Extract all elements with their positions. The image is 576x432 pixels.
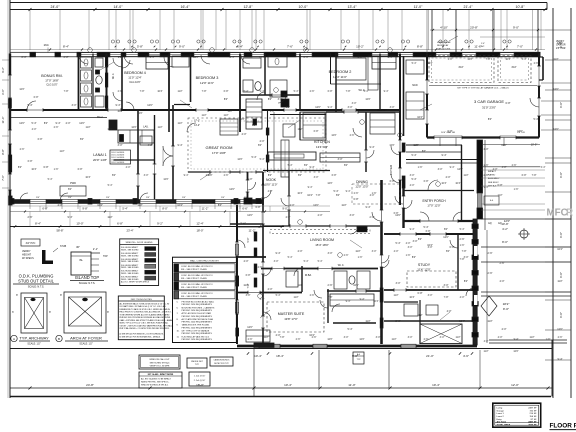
svg-text:11'2": 11'2": [177, 122, 182, 125]
svg-text:4'-0": 4'-0": [484, 148, 489, 151]
svg-text:9'-2": 9'-2": [1, 67, 5, 73]
svg-text:2'-6": 2'-6": [248, 338, 253, 341]
svg-text:2'-1": 2'-1": [93, 247, 98, 251]
svg-text:FLOOR P: FLOOR P: [550, 423, 576, 430]
svg-text:2'-6": 2'-6": [344, 254, 349, 257]
svg-text:12'0": 12'0": [457, 168, 463, 171]
svg-text:742 SF: 742 SF: [529, 410, 537, 412]
svg-text:7'-8": 7'-8": [532, 174, 537, 177]
svg-text:5'-4": 5'-4": [522, 58, 527, 61]
svg-text:3'-0": 3'-0": [438, 168, 443, 171]
svg-text:2'-6": 2'-6": [484, 164, 489, 167]
svg-text:9'-4": 9'-4": [360, 298, 365, 301]
svg-text:17'0" 12'0": 17'0" 12'0": [427, 204, 440, 208]
svg-text:SCALE: 1/2": SCALE: 1/2": [27, 343, 40, 346]
svg-text:WINDOW + DOOR LEGEND: WINDOW + DOOR LEGEND: [126, 242, 153, 244]
svg-text:3'-0": 3'-0": [328, 252, 333, 255]
svg-text:10'4": 10'4": [307, 194, 313, 197]
svg-text:FIN. - SEE STRUCT. PLANS: FIN. - SEE STRUCT. PLANS: [181, 268, 207, 271]
svg-text:6'-8": 6'-8": [390, 180, 395, 183]
svg-text:ALL EXT GLAZING TO BE IMPACT: ALL EXT GLAZING TO BE IMPACT: [141, 378, 172, 381]
svg-text:6'-8": 6'-8": [450, 246, 455, 249]
svg-text:SCALE: 1/2": SCALE: 1/2": [79, 343, 92, 346]
svg-text:VERIFY SLAB: VERIFY SLAB: [437, 41, 451, 44]
svg-text:CONC. BLOCK WALL W/ STUCCO: CONC. BLOCK WALL W/ STUCCO: [181, 265, 213, 268]
svg-text:11'-2": 11'-2": [202, 207, 209, 211]
svg-text:6'-8": 6'-8": [498, 184, 503, 187]
svg-text:2'-6": 2'-6": [20, 148, 25, 151]
svg-text:17'0" 19'8": 17'0" 19'8": [212, 151, 226, 155]
svg-text:4'-0": 4'-0": [58, 204, 63, 207]
svg-text:2487 SF: 2487 SF: [528, 407, 537, 409]
svg-text:12'0": 12'0": [239, 118, 244, 121]
svg-text:12'0": 12'0": [137, 112, 142, 115]
svg-text:9'-4": 9'-4": [178, 144, 183, 147]
svg-text:4'-0": 4'-0": [290, 204, 295, 207]
svg-text:3'-0": 3'-0": [410, 174, 415, 177]
svg-text:TOP: TOP: [103, 256, 108, 258]
svg-text:10'-8": 10'-8": [516, 5, 526, 9]
svg-text:SCALE: N.T.S.: SCALE: N.T.S.: [28, 286, 45, 289]
svg-text:Lanai 2: Lanai 2: [497, 416, 505, 418]
svg-text:4'-0": 4'-0": [370, 194, 375, 197]
svg-text:5'-8": 5'-8": [137, 45, 143, 49]
svg-text:1'-4": 1'-4": [481, 43, 485, 45]
svg-text:12'0": 12'0": [193, 56, 199, 59]
svg-text:MOUNTED FIXTURES + CABINETS: MOUNTED FIXTURES + CABINETS: [182, 306, 216, 309]
svg-text:11'2": 11'2": [557, 280, 562, 283]
svg-text:4'-0": 4'-0": [260, 140, 265, 143]
svg-text:9'-0": 9'-0": [559, 102, 563, 108]
svg-text:SIZES. TYP CLG HT 10'-0" U.N.O: SIZES. TYP CLG HT 10'-0" U.N.O. SEE ELEC…: [120, 322, 169, 325]
svg-text:9'-8": 9'-8": [82, 207, 87, 211]
svg-text:11'2": 11'2": [455, 336, 460, 339]
svg-text:TYP. ARCHWAY: TYP. ARCHWAY: [19, 336, 49, 341]
svg-text:W/ SPECS: W/ SPECS: [22, 257, 34, 260]
svg-text:9'4": 9'4": [36, 197, 40, 199]
svg-text:SCALE: N.T.S.: SCALE: N.T.S.: [79, 282, 96, 285]
svg-text:FIN. - SEE STRUCT. PLANS: FIN. - SEE STRUCT. PLANS: [181, 277, 207, 280]
svg-text:3'-0": 3'-0": [390, 106, 395, 109]
svg-text:6'-8": 6'-8": [224, 90, 229, 93]
svg-text:5'-4": 5'-4": [304, 260, 309, 263]
svg-text:2'-6": 2'-6": [54, 126, 59, 129]
svg-text:11'2": 11'2": [365, 320, 370, 323]
svg-text:2'-6": 2'-6": [244, 202, 249, 205]
svg-text:12'0": 12'0": [19, 88, 24, 91]
svg-text:3 CAR GARAGE: 3 CAR GARAGE: [474, 99, 504, 104]
svg-text:9'-4": 9'-4": [310, 166, 315, 169]
svg-text:10'4": 10'4": [409, 296, 414, 299]
svg-text:10'4": 10'4": [31, 168, 36, 171]
svg-text:RATED PER FBC. SEE SPECS +: RATED PER FBC. SEE SPECS +: [141, 381, 170, 384]
svg-text:4'-0": 4'-0": [244, 260, 249, 263]
svg-text:8'0": 8'0": [286, 106, 290, 109]
svg-text:2'-6": 2'-6": [296, 338, 301, 341]
svg-text:4'-0": 4'-0": [268, 190, 273, 193]
svg-text:164: 164: [43, 43, 48, 47]
svg-text:19'8" 17'0": 19'8" 17'0": [284, 317, 298, 321]
svg-text:3'-0": 3'-0": [428, 246, 433, 249]
svg-text:CONC. BLOCK WALL W/ STUCCO: CONC. BLOCK WALL W/ STUCCO: [181, 274, 213, 277]
svg-text:5'-4": 5'-4": [541, 166, 546, 169]
svg-text:9'-4": 9'-4": [308, 186, 313, 189]
svg-text:156 SF: 156 SF: [529, 416, 537, 418]
svg-text:5'-4": 5'-4": [460, 228, 465, 231]
svg-text:3'-0": 3'-0": [444, 284, 449, 287]
svg-text:6'-8": 6'-8": [44, 166, 49, 169]
svg-text:CONC. BLOCK WALL W/ STUCCO: CONC. BLOCK WALL W/ STUCCO: [181, 292, 213, 295]
svg-text:12'0": 12'0": [553, 88, 559, 91]
svg-text:6'-6": 6'-6": [242, 207, 247, 211]
svg-text:4'-0": 4'-0": [446, 176, 451, 179]
svg-text:PER FBC 2020 REQUIREMENTS: PER FBC 2020 REQUIREMENTS: [182, 310, 213, 312]
svg-text:2'-6": 2'-6": [512, 164, 517, 167]
svg-text:1'-6": 1'-6": [270, 110, 275, 113]
svg-text:9'4": 9'4": [68, 197, 72, 199]
svg-text:12'0" 13'0": 12'0" 13'0": [355, 185, 368, 189]
svg-text:2'8" HDR: 2'8" HDR: [556, 48, 566, 50]
svg-text:8'0": 8'0": [68, 188, 72, 191]
svg-text:1'-6": 1'-6": [546, 338, 551, 341]
svg-text:6'-8": 6'-8": [522, 174, 527, 177]
svg-text:11'2": 11'2": [59, 150, 64, 153]
svg-text:2'-6": 2'-6": [396, 320, 401, 323]
svg-text:M.BA: M.BA: [305, 273, 312, 277]
svg-text:24'-8": 24'-8": [86, 383, 94, 387]
svg-text:A/C PLATFORM PER MECH PLAN: A/C PLATFORM PER MECH PLAN: [182, 318, 214, 321]
svg-text:3'-0": 3'-0": [396, 282, 401, 285]
svg-text:R: R: [566, 208, 573, 219]
svg-text:2'-6": 2'-6": [354, 192, 359, 195]
svg-text:10'4": 10'4": [417, 116, 423, 119]
svg-text:6'-8": 6'-8": [64, 56, 69, 59]
svg-text:6'-8": 6'-8": [418, 292, 423, 295]
svg-text:11'2": 11'2": [393, 294, 398, 297]
svg-text:11'2": 11'2": [227, 110, 232, 113]
svg-text:W.I.C.: W.I.C.: [338, 264, 345, 267]
svg-text:ALL EXTERIOR WALLS TO BE 2x6 W: ALL EXTERIOR WALLS TO BE 2x6 WD STUDS @ …: [120, 302, 170, 305]
svg-text:14'-2": 14'-2": [194, 125, 200, 127]
svg-text:12'0": 12'0": [443, 236, 449, 239]
svg-text:8'0": 8'0": [336, 194, 340, 197]
svg-text:8'0": 8'0": [298, 174, 302, 177]
svg-text:6'-0": 6'-0": [42, 207, 47, 211]
svg-text:11'2": 11'2": [483, 350, 488, 353]
svg-text:A: A: [13, 337, 15, 341]
svg-text:10'-0": 10'-0": [76, 222, 83, 226]
svg-text:11'2": 11'2": [201, 114, 206, 117]
svg-text:5'-4": 5'-4": [348, 328, 353, 331]
svg-text:3'-0": 3'-0": [440, 336, 445, 339]
svg-text:11'2": 11'2": [391, 338, 396, 341]
svg-text:BEDROOM 3: BEDROOM 3: [196, 76, 219, 80]
svg-text:4'-0": 4'-0": [32, 128, 37, 131]
svg-text:B: B: [58, 337, 60, 341]
svg-text:6'-8": 6'-8": [248, 178, 253, 181]
svg-text:5'-0": 5'-0": [247, 237, 250, 242]
svg-text:4'-0": 4'-0": [126, 166, 131, 169]
svg-text:12'0": 12'0": [517, 130, 523, 133]
svg-text:11'-0": 11'-0": [348, 383, 355, 387]
svg-text:CABS + FIXTURES. SEE STRUCT PL: CABS + FIXTURES. SEE STRUCT PLANS FOR AL…: [120, 319, 173, 322]
svg-text:3/4" PVC: 3/4" PVC: [26, 242, 36, 245]
svg-text:5'-4": 5'-4": [48, 178, 53, 181]
svg-text:11'2": 11'2": [355, 250, 360, 253]
svg-text:CLG 10'0": CLG 10'0": [129, 81, 140, 84]
svg-text:10'4": 10'4": [441, 182, 446, 185]
svg-text:EQ: EQ: [488, 223, 492, 225]
svg-text:11'-0": 11'-0": [414, 5, 423, 9]
svg-text:9'-0": 9'-0": [282, 207, 287, 211]
svg-text:8'0": 8'0": [258, 144, 262, 147]
svg-text:2'-6": 2'-6": [370, 216, 375, 219]
svg-text:9'-4": 9'-4": [346, 190, 351, 193]
svg-text:11'-2": 11'-2": [249, 229, 256, 233]
svg-text:GAR. DR: GAR. DR: [556, 43, 566, 46]
svg-text:9'-0": 9'-0": [559, 312, 563, 318]
svg-text:12'0": 12'0": [229, 188, 235, 191]
svg-text:10'4": 10'4": [459, 320, 465, 323]
svg-text:3'-0": 3'-0": [376, 336, 381, 339]
svg-text:W.I.C.: W.I.C.: [113, 73, 115, 80]
svg-text:RECESS AT: RECESS AT: [437, 44, 449, 47]
svg-text:4'-0": 4'-0": [298, 250, 303, 253]
svg-text:WDW - SEE SCHED: WDW - SEE SCHED: [121, 267, 139, 269]
svg-text:8'0": 8'0": [344, 164, 348, 167]
svg-text:7'-8": 7'-8": [140, 90, 145, 93]
svg-text:9'4": 9'4": [106, 197, 110, 199]
svg-text:6'-8": 6'-8": [394, 212, 399, 215]
svg-text:2'-6": 2'-6": [558, 336, 563, 339]
svg-text:7'-8": 7'-8": [346, 90, 351, 93]
svg-text:23'-4": 23'-4": [126, 229, 133, 233]
svg-text:12'0": 12'0": [501, 144, 507, 147]
svg-text:WDW - SEE SCHED: WDW - SEE SCHED: [121, 249, 139, 251]
svg-text:12'0": 12'0": [79, 122, 85, 125]
svg-text:12'0": 12'0": [247, 326, 253, 329]
svg-text:2'-6": 2'-6": [484, 174, 489, 177]
svg-text:5/8" TYPE-X GYP @ GARAGE: 5/8" TYPE-X GYP @ GARAGE: [182, 330, 210, 333]
svg-text:3'-0": 3'-0": [428, 294, 433, 297]
svg-text:9'-4": 9'-4": [276, 252, 281, 255]
svg-text:8'0": 8'0": [446, 250, 450, 253]
svg-text:2'-6": 2'-6": [304, 56, 309, 59]
svg-text:6'-8": 6'-8": [332, 174, 337, 177]
svg-text:36": 36": [76, 245, 80, 249]
svg-text:12'0": 12'0": [131, 126, 136, 129]
svg-text:12'0": 12'0": [557, 328, 563, 331]
svg-text:6'-4": 6'-4": [237, 45, 243, 49]
svg-text:12'4" 11'0": 12'4" 11'0": [333, 75, 347, 79]
svg-text:4'-0": 4'-0": [410, 184, 415, 187]
svg-text:18'-4": 18'-4": [276, 354, 284, 358]
svg-text:4'-2": 4'-2": [502, 227, 508, 231]
svg-text:4'-0": 4'-0": [148, 144, 153, 147]
svg-text:ENTRY PORCH: ENTRY PORCH: [422, 199, 446, 203]
svg-text:11'2": 11'2": [297, 284, 302, 287]
svg-text:9'4": 9'4": [146, 197, 150, 199]
svg-text:3'-0": 3'-0": [344, 336, 349, 339]
svg-text:PANTRY: PANTRY: [377, 109, 387, 112]
svg-text:18'2": 18'2": [503, 302, 510, 306]
svg-text:10'4": 10'4": [177, 204, 183, 207]
svg-text:BONUS RM.: BONUS RM.: [41, 74, 63, 78]
svg-text:2'-6": 2'-6": [258, 266, 263, 269]
svg-text:RATED: RATED: [488, 174, 496, 177]
svg-text:19'-4": 19'-4": [432, 383, 440, 387]
svg-text:PWD: PWD: [70, 182, 76, 185]
svg-text:3'-0": 3'-0": [348, 106, 353, 109]
svg-text:3'-0": 3'-0": [372, 250, 377, 253]
svg-text:3'-0": 3'-0": [350, 214, 355, 217]
svg-text:12'0": 12'0": [467, 58, 472, 61]
svg-text:O.D.K. 2x4 BLKG: O.D.K. 2x4 BLKG: [111, 162, 125, 164]
svg-text:BEDROOM 2: BEDROOM 2: [329, 70, 352, 74]
svg-text:5'-4": 5'-4": [412, 154, 417, 157]
svg-text:3686 SF: 3686 SF: [528, 425, 537, 427]
svg-text:10'4": 10'4": [157, 90, 162, 93]
svg-text:10'-2": 10'-2": [356, 45, 364, 49]
svg-text:8'-0": 8'-0": [162, 207, 167, 211]
svg-text:ATTIC ACCESS 22x54 W/ STAIR: ATTIC ACCESS 22x54 W/ STAIR: [182, 312, 212, 315]
svg-text:7'-8": 7'-8": [328, 296, 333, 299]
svg-text:9'-4": 9'-4": [410, 228, 415, 231]
svg-text:STUDY: STUDY: [418, 263, 431, 267]
svg-text:11'2": 11'2": [137, 204, 142, 207]
svg-text:8'0": 8'0": [224, 98, 228, 101]
svg-text:PER FBC 2020 REQUIREMENTS: PER FBC 2020 REQUIREMENTS: [182, 339, 213, 341]
svg-text:R-19 BATT INSUL. INT WALLS 2x4: R-19 BATT INSUL. INT WALLS 2x4 @ 16" O.C…: [120, 305, 166, 308]
svg-text:11'-4": 11'-4": [1, 117, 5, 124]
svg-text:12'0" 11'6": 12'0" 11'6": [200, 81, 214, 85]
svg-text:12'0": 12'0": [359, 338, 364, 341]
svg-text:11'2": 11'2": [157, 126, 162, 129]
svg-text:7'-8": 7'-8": [316, 194, 321, 197]
svg-text:KITCHEN: KITCHEN: [314, 140, 330, 144]
svg-text:21'-0": 21'-0": [426, 354, 434, 358]
svg-text:5'-4": 5'-4": [244, 90, 249, 93]
svg-text:6'-8": 6'-8": [28, 160, 33, 163]
svg-text:NOOK: NOOK: [266, 178, 277, 182]
svg-text:9'-4": 9'-4": [450, 166, 455, 169]
svg-text:11'2": 11'2": [223, 114, 228, 117]
svg-text:2'-6": 2'-6": [22, 56, 27, 59]
svg-text:5'-4": 5'-4": [108, 184, 113, 187]
svg-text:8'0": 8'0": [304, 164, 308, 167]
svg-text:87 SF: 87 SF: [531, 419, 538, 421]
svg-text:DRY. TECHS NOTES: DRY. TECHS NOTES: [131, 299, 153, 301]
svg-text:CLG 10'0": CLG 10'0": [46, 84, 57, 87]
svg-text:8'0": 8'0": [464, 280, 468, 283]
svg-text:GREAT ROOM: GREAT ROOM: [206, 145, 233, 150]
svg-text:12'0": 12'0": [107, 128, 112, 131]
svg-text:5'-4": 5'-4": [260, 158, 265, 161]
svg-text:8'0": 8'0": [268, 174, 272, 177]
svg-text:20'-8": 20'-8": [470, 26, 478, 30]
svg-text:5'-4": 5'-4": [534, 118, 539, 121]
svg-text:2'-6": 2'-6": [350, 134, 355, 137]
svg-text:6'-0": 6'-0": [1, 89, 5, 95]
svg-text:12'-8": 12'-8": [244, 5, 254, 9]
svg-text:1'-6": 1'-6": [448, 58, 453, 61]
svg-text:12'-0": 12'-0": [511, 383, 519, 387]
svg-text:3'-0": 3'-0": [278, 98, 283, 101]
svg-text:11'0" 12'4": 11'0" 12'4": [128, 76, 141, 80]
svg-text:8'-8": 8'-8": [417, 45, 423, 49]
svg-text:2'-6": 2'-6": [534, 62, 539, 65]
svg-text:1'-6": 1'-6": [54, 168, 59, 171]
svg-text:9'-4": 9'-4": [384, 90, 389, 93]
svg-text:4'-0": 4'-0": [66, 122, 71, 125]
svg-text:214 SF: 214 SF: [529, 413, 537, 415]
svg-text:11'2": 11'2": [413, 144, 418, 147]
svg-text:4'-0": 4'-0": [268, 288, 273, 291]
svg-text:6'-8": 6'-8": [424, 180, 429, 183]
svg-text:4'10": 4'10": [511, 66, 516, 69]
svg-text:2'-6": 2'-6": [224, 174, 229, 177]
svg-text:8'0": 8'0": [18, 166, 22, 169]
svg-text:8'0": 8'0": [44, 122, 48, 125]
svg-text:11'2": 11'2": [297, 128, 302, 131]
svg-text:5'-4": 5'-4": [364, 90, 369, 93]
svg-text:9'-4": 9'-4": [56, 122, 61, 125]
svg-text:12'0": 12'0": [315, 106, 321, 109]
svg-text:MASTER SUITE: MASTER SUITE: [278, 312, 305, 316]
svg-text:10'4": 10'4": [455, 182, 460, 185]
svg-text:9'-4": 9'-4": [388, 56, 393, 59]
svg-text:4'-0": 4'-0": [242, 133, 247, 136]
svg-text:5'-4": 5'-4": [288, 256, 293, 259]
svg-text:11'2": 11'2": [497, 194, 502, 197]
svg-text:5'-4": 5'-4": [230, 56, 235, 59]
svg-text:5'-4": 5'-4": [252, 156, 257, 159]
svg-text:5'-4": 5'-4": [412, 62, 417, 65]
svg-text:11.: 11.: [177, 336, 180, 338]
svg-text:10'4": 10'4": [427, 62, 432, 65]
svg-text:2'-6": 2'-6": [424, 338, 429, 341]
svg-text:PER FBC 2020 REQUIREMENTS: PER FBC 2020 REQUIREMENTS: [182, 333, 213, 335]
svg-text:10'4": 10'4": [97, 204, 103, 207]
svg-text:12'0": 12'0": [147, 104, 153, 107]
svg-text:9'4": 9'4": [221, 197, 225, 199]
svg-text:VERIFY: VERIFY: [556, 41, 565, 43]
svg-text:Living: Living: [497, 407, 503, 409]
svg-text:9'-4": 9'-4": [370, 146, 375, 149]
svg-text:8'-0": 8'-0": [502, 240, 508, 244]
svg-text:31'0" 23'0": 31'0" 23'0": [482, 106, 496, 110]
svg-text:8'0": 8'0": [418, 238, 422, 241]
svg-text:DETECTOR TYP.: DETECTOR TYP.: [214, 363, 229, 365]
svg-text:2'-6": 2'-6": [488, 252, 493, 255]
svg-text:1'-6": 1'-6": [406, 254, 411, 257]
svg-text:5'-4": 5'-4": [424, 226, 429, 229]
svg-text:FIN. - SEE STRUCT. PLANS: FIN. - SEE STRUCT. PLANS: [181, 286, 207, 289]
svg-text:PER FBC 2020. PROVIDE BLOCKING: PER FBC 2020. PROVIDE BLOCKING AT ALL WA…: [120, 316, 171, 319]
svg-text:4'-0": 4'-0": [460, 296, 465, 299]
svg-text:ARCH AT FOYER: ARCH AT FOYER: [70, 336, 102, 341]
svg-text:2'-6": 2'-6": [328, 284, 333, 287]
svg-text:5'-4": 5'-4": [318, 260, 323, 263]
svg-text:7'-8": 7'-8": [64, 90, 69, 93]
svg-text:10'-4": 10'-4": [284, 383, 292, 387]
svg-text:7'-8": 7'-8": [280, 336, 285, 339]
svg-text:FOYER: FOYER: [389, 164, 393, 175]
svg-text:3'-0": 3'-0": [72, 104, 77, 107]
svg-text:CONC. BLOCK WALL W/ STUCCO: CONC. BLOCK WALL W/ STUCCO: [181, 283, 213, 286]
svg-text:10'4": 10'4": [85, 176, 90, 179]
svg-text:8'0": 8'0": [268, 98, 272, 101]
